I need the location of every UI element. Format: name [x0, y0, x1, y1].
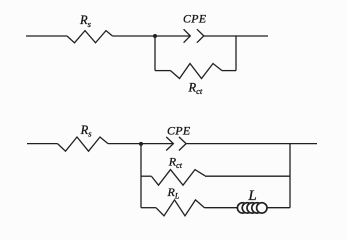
resistor RL (bottom circuit)	[156, 200, 205, 216]
op CPE element top: chevron 2	[197, 29, 204, 43]
op CPE element bottom: chevron 2	[179, 137, 186, 151]
resistor Rs (bottom circuit)	[58, 137, 109, 151]
wire CPE to right end (bottom circuit)	[186, 143, 317, 145]
wire bottom-left lead (bottom circuit)	[27, 143, 58, 145]
svg-text:Rs: Rs	[79, 13, 92, 29]
svg-text:L: L	[247, 188, 256, 204]
node A (top junction dot)	[153, 34, 157, 38]
wire right bus vertical (bottom circuit)	[289, 144, 291, 208]
wire bottom-left stub (top circuit)	[155, 70, 171, 72]
op CPE element bottom: chevron 1	[166, 137, 173, 151]
wire node down (bottom circuit left bus)	[140, 144, 142, 208]
wire CPE to right end (top)	[204, 35, 268, 37]
wire bottom branch left stub	[141, 207, 156, 209]
svg-text:CPE: CPE	[167, 123, 191, 137]
wire Rs to node (bottom circuit)	[108, 143, 173, 145]
resistor Rs (top circuit)	[67, 31, 113, 43]
svg-text:RL: RL	[167, 185, 180, 201]
op CPE element top: chevron 1	[184, 29, 191, 43]
svg-text:Rs: Rs	[80, 123, 93, 139]
wire Rct to right vertical (top circuit)	[222, 70, 236, 72]
wire Rs to node	[113, 35, 190, 37]
wire Rct to right bus (bottom circuit)	[205, 175, 290, 177]
svg-text:Rct: Rct	[168, 154, 183, 170]
wire middle branch left stub	[141, 175, 152, 177]
wire node down (top circuit left branch)	[154, 36, 156, 71]
inductor L (coil of 5 loops)	[237, 203, 267, 213]
node B (bottom junction dot)	[139, 142, 143, 146]
resistor Rct (bottom circuit)	[152, 170, 206, 186]
wire right vertical (top circuit)	[235, 35, 237, 70]
svg-text:CPE: CPE	[183, 12, 207, 26]
wire inductor to right bus	[267, 207, 290, 209]
wire top-left lead	[26, 35, 67, 37]
resistor Rct (top circuit)	[171, 64, 223, 79]
wire RL to inductor	[205, 207, 239, 209]
svg-text:Rct: Rct	[188, 80, 203, 96]
